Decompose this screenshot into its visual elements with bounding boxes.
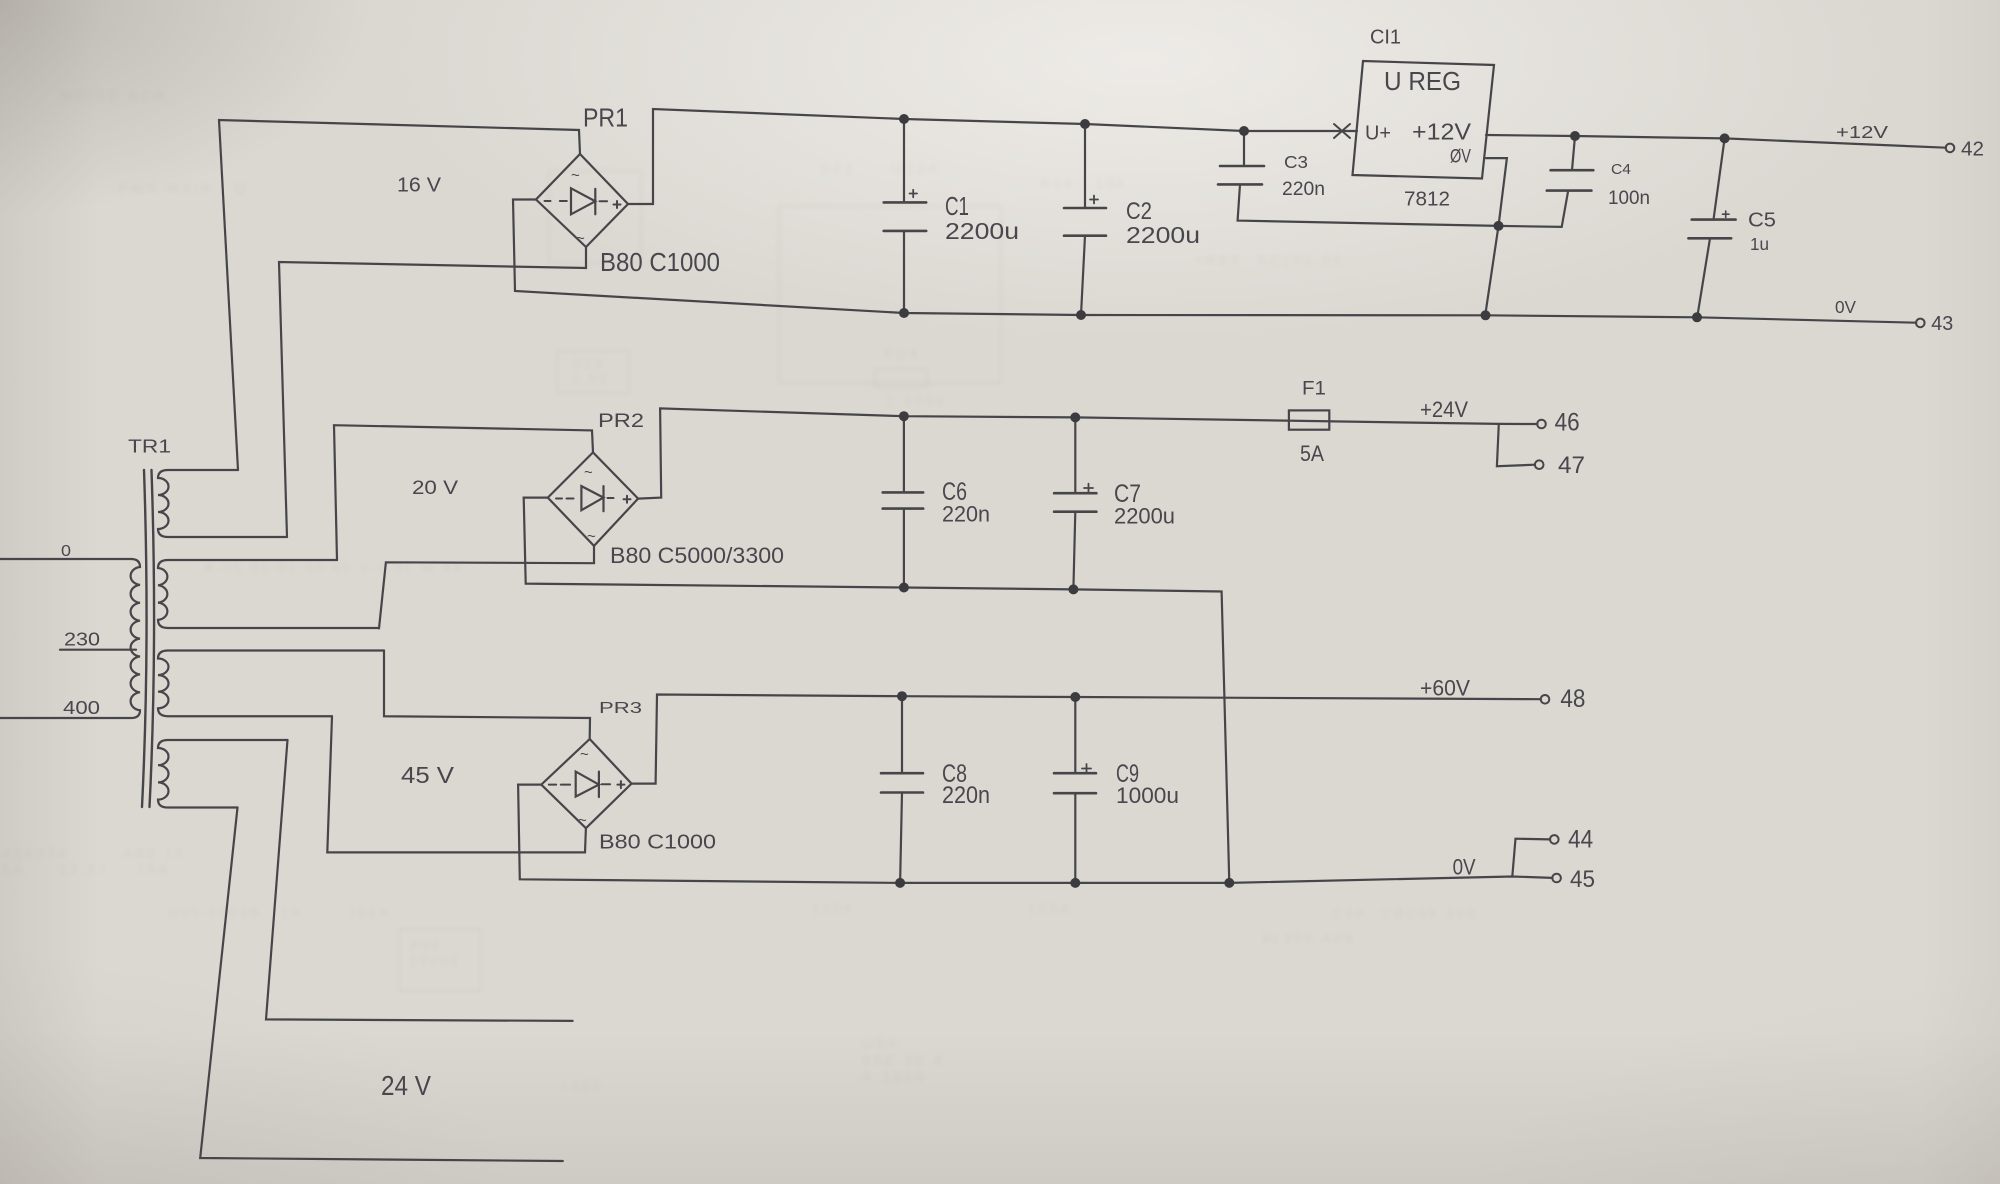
- capacitor C6 220n: [883, 416, 924, 587]
- junction +12V out / C4: [1570, 131, 1580, 141]
- svg-text:45 V: 45 V: [401, 762, 455, 788]
- svg-text:2200u: 2200u: [1114, 504, 1175, 529]
- svg-text:7812: 7812: [1404, 189, 1450, 211]
- svg-text:PR2: PR2: [598, 410, 644, 432]
- svg-text:+12V: +12V: [1412, 119, 1472, 145]
- svg-text:2200u: 2200u: [945, 218, 1019, 244]
- svg-text:CI1: CI1: [1370, 27, 1401, 49]
- wire branch to terminal 44: [1512, 839, 1550, 877]
- wire U REG 0V pin to ground node: [1486, 158, 1507, 313]
- svg-text:220n: 220n: [942, 782, 990, 809]
- capacitor C4 100n: [1547, 136, 1594, 191]
- wire 24V winding bottom output: [200, 808, 563, 1162]
- junction 0V rail / C2: [1076, 310, 1086, 320]
- svg-text:B80 C5000/3300: B80 C5000/3300: [610, 543, 784, 568]
- wire C3 bottom to 0V node of U REG: [1238, 184, 1499, 226]
- wire PR2 + output / +24V rail to terminal 46: [638, 408, 1537, 498]
- svg-text:B80 C1000: B80 C1000: [600, 247, 720, 277]
- svg-text:100n: 100n: [1608, 188, 1650, 209]
- svg-text:220n: 220n: [1282, 179, 1325, 200]
- capacitor C3 220n: [1218, 131, 1499, 226]
- bridge rectifier PR1: [536, 154, 628, 247]
- wire 45V winding top to PR3 ~ (top): [384, 651, 590, 740]
- junction PR2 minus rail / C6: [899, 583, 909, 593]
- svg-text:~: ~: [571, 167, 580, 184]
- svg-text:43: 43: [1931, 312, 1953, 335]
- wire PR3 - output / 0V bottom rail to terminal 45: [518, 785, 1552, 883]
- wire PR1 - output / 0V rail to terminal 43: [513, 200, 1916, 323]
- svg-text:TR1: TR1: [128, 437, 171, 457]
- TR1 secondary winding 24V: [158, 740, 288, 808]
- svg-text:U+: U+: [1365, 123, 1391, 145]
- capacitor C9 1000u: [1054, 697, 1096, 883]
- junction +12V rail / C1: [899, 114, 909, 124]
- junction +24V rail / C6: [899, 411, 909, 421]
- TR1 secondary winding 45V: [158, 651, 384, 717]
- wire 45V winding bottom to PR3 ~ (bottom): [327, 716, 586, 852]
- bridge rectifier PR3: [541, 739, 631, 829]
- svg-text:PR1: PR1: [583, 103, 628, 133]
- svg-text:~: ~: [587, 528, 596, 545]
- wire PR2 - output rail down to 0V bottom rail: [524, 498, 1230, 883]
- svg-text:C1: C1: [945, 191, 969, 221]
- bridge rectifier PR2: [548, 452, 638, 546]
- wire 24V winding top output: [266, 740, 573, 1021]
- svg-text:0V: 0V: [1835, 297, 1856, 317]
- junction 0V rail / regulator ground: [1481, 310, 1491, 320]
- junction 0V bottom rail / PR2 minus: [1224, 878, 1234, 888]
- junction +24V rail / C7: [1070, 412, 1080, 422]
- capacitor C1 2200u: [884, 119, 927, 313]
- svg-text:C5: C5: [1748, 210, 1776, 232]
- junction +12V rail / C2: [1080, 119, 1090, 129]
- svg-text:24 V: 24 V: [381, 1070, 431, 1101]
- svg-text:~: ~: [580, 746, 589, 763]
- svg-text:1u: 1u: [1750, 234, 1769, 254]
- terminal 46: [1537, 420, 1546, 429]
- TR1 secondary winding 20V: [158, 560, 379, 628]
- svg-text:220n: 220n: [942, 502, 990, 527]
- junction +12V out / C5: [1720, 133, 1730, 143]
- junction +60V rail / C9: [1070, 692, 1080, 702]
- wire 16V winding bottom to PR1 ~ (bottom): [279, 247, 586, 537]
- svg-text:C2: C2: [1126, 198, 1152, 225]
- junction +60V rail / C8: [897, 691, 907, 701]
- svg-text:~: ~: [576, 230, 585, 247]
- svg-text:PR3: PR3: [599, 700, 642, 717]
- terminal 42: [1946, 144, 1955, 153]
- TR1 secondary winding 16V: [158, 470, 287, 537]
- capacitor C5 1u: [1688, 138, 1735, 317]
- wire branch to terminal 47: [1497, 424, 1535, 466]
- terminal 48: [1541, 695, 1550, 704]
- svg-text:48: 48: [1560, 685, 1585, 713]
- svg-text:+12V: +12V: [1836, 122, 1888, 142]
- svg-text:20 V: 20 V: [412, 477, 458, 499]
- junction 0V bottom rail / C8: [895, 878, 905, 888]
- svg-text:230: 230: [64, 630, 100, 650]
- X mark at U REG input: [1334, 124, 1350, 138]
- terminal 43: [1916, 319, 1925, 328]
- svg-text:44: 44: [1568, 826, 1593, 854]
- junction regulator 0V node: [1494, 221, 1504, 231]
- wire U REG +12V output rail to terminal 42: [1486, 135, 1946, 148]
- junction 0V rail / C1: [899, 308, 909, 318]
- svg-text:0V: 0V: [1453, 855, 1476, 880]
- svg-text:2200u: 2200u: [1126, 222, 1200, 248]
- TR1 primary winding (taps 0 / 230 / 400): [0, 559, 140, 718]
- junction 0V bottom rail / C9: [1070, 878, 1080, 888]
- capacitor C8 220n: [881, 696, 923, 883]
- svg-text:C3: C3: [1284, 152, 1308, 172]
- svg-text:+60V: +60V: [1420, 676, 1470, 701]
- junction 0V rail / C5: [1692, 312, 1702, 322]
- transformer TR1: [0, 470, 384, 808]
- fuse F1 5A: [1289, 410, 1329, 429]
- wire 20V winding bottom to PR2 ~ (bottom): [379, 546, 594, 629]
- wire 20V winding top to PR2 ~ (top): [334, 425, 593, 560]
- svg-text:ØV: ØV: [1450, 147, 1471, 168]
- svg-text:47: 47: [1558, 452, 1585, 479]
- svg-text:+24V: +24V: [1420, 397, 1468, 422]
- svg-text:1000u: 1000u: [1116, 783, 1179, 808]
- wire 230 tap: [60, 649, 136, 651]
- capacitor C2 2200u: [1064, 124, 1106, 315]
- svg-text:400: 400: [63, 697, 100, 718]
- svg-text:46: 46: [1555, 409, 1580, 437]
- junction +12V rail / C3: [1239, 126, 1249, 136]
- voltage regulator U REG 7812 (CI1): [1353, 61, 1495, 179]
- svg-text:16 V: 16 V: [397, 175, 442, 197]
- junction PR2 minus rail / C7: [1068, 584, 1078, 594]
- svg-text:B80 C1000: B80 C1000: [599, 832, 716, 854]
- wire 16V winding top to PR1 ~ (top): [219, 120, 580, 470]
- svg-text:U REG: U REG: [1384, 66, 1461, 96]
- svg-text:42: 42: [1961, 138, 1984, 161]
- svg-text:0: 0: [61, 543, 71, 560]
- svg-text:F1: F1: [1302, 379, 1326, 400]
- svg-text:5A: 5A: [1300, 441, 1324, 466]
- wire PR3 + output / +60V rail to terminal 48: [632, 695, 1541, 784]
- svg-text:~: ~: [578, 812, 587, 829]
- svg-text:~: ~: [584, 464, 593, 481]
- terminal 47: [1535, 460, 1544, 469]
- transformer TR1 core: [142, 470, 147, 807]
- terminal 45: [1552, 874, 1561, 883]
- svg-text:45: 45: [1570, 866, 1595, 893]
- capacitor C7 2200u: [1054, 417, 1096, 589]
- terminal 44: [1550, 835, 1559, 844]
- wire PR1 + output / +12V unregulated rail to U REG input: [628, 109, 1357, 204]
- svg-text:C4: C4: [1611, 161, 1631, 178]
- wire ground node to C4 bottom: [1499, 191, 1569, 227]
